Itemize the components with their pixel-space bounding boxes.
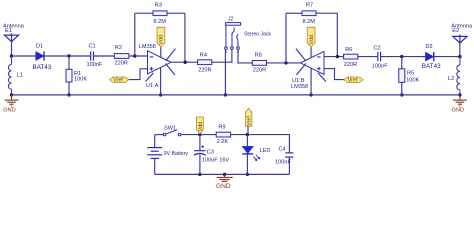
resistor R5 — [399, 69, 405, 83]
svg-text:BAT43: BAT43 — [422, 63, 441, 70]
svg-text:Vdd: Vdd — [198, 122, 204, 131]
diode D1 BAT43 — [36, 51, 44, 60]
resistor R2 — [114, 54, 129, 59]
diode D1 labels — [33, 44, 52, 71]
resistor R4 labels — [198, 53, 211, 74]
svg-text:GND: GND — [452, 108, 464, 114]
capacitor C4 labels — [275, 147, 291, 166]
svg-text:2.2K: 2.2K — [217, 139, 229, 145]
svg-text:E1: E1 — [5, 28, 12, 34]
svg-text:R9: R9 — [218, 125, 225, 131]
stereo jack J2 pin number marks — [225, 51, 239, 53]
svg-text:C2: C2 — [374, 46, 381, 52]
node F junction — [336, 55, 339, 58]
op-amp U1:A V- pin to rail — [160, 67, 162, 95]
svg-text:U1:A: U1:A — [146, 83, 159, 89]
svg-text:Vref: Vref — [247, 116, 253, 126]
capacitor C2 — [378, 52, 381, 61]
wire ground rail — [12, 94, 460, 96]
wire node B1 to C1 — [69, 55, 90, 57]
wire R1 to rail — [68, 82, 70, 95]
svg-text:Vdd: Vdd — [309, 35, 315, 44]
wire R7 top right — [316, 12, 337, 14]
capacitor C3 electrolytic — [194, 135, 206, 175]
svg-text:BAT43: BAT43 — [33, 64, 52, 71]
wire node G down to R5 — [401, 57, 403, 69]
wire R7 right vertical to inverting node — [336, 13, 338, 56]
capacitor C1 — [91, 51, 94, 60]
wire Vref to U1:A non-inverting input — [129, 69, 148, 80]
antenna E2 — [453, 35, 467, 43]
wire R3 top left — [135, 12, 153, 14]
wire R4 to jack tip pin — [212, 50, 232, 63]
svg-text:SW1: SW1 — [164, 126, 176, 132]
ground GND2 — [453, 95, 467, 106]
svg-text:100nF: 100nF — [372, 64, 388, 70]
wire node B1 down to R1 — [68, 56, 70, 69]
power flag Vref (left) — [110, 77, 129, 84]
node GND3 junction — [223, 173, 226, 176]
junction U1:A V- rail — [159, 93, 162, 96]
power flag Vdd (U1:A) — [157, 27, 165, 47]
junction C3 bottom rail — [198, 173, 201, 176]
wire LED cathode to bottom rail — [246, 154, 248, 175]
junction R5 rail — [400, 93, 403, 96]
op-amp U1:A power pin rays — [146, 49, 176, 82]
wire Vref to U1:B non-inverting input — [324, 69, 344, 80]
svg-text:R5: R5 — [407, 70, 414, 76]
antenna E1 label — [3, 23, 25, 34]
wire R7 top left — [286, 12, 302, 14]
wire C2 to node G — [381, 56, 402, 58]
stereo jack J2 ring switch contact — [237, 34, 239, 47]
wire R7 left vertical — [285, 13, 287, 63]
node C junction — [133, 54, 136, 57]
node A2 junction — [458, 55, 461, 58]
node GND1 junction — [10, 93, 13, 96]
stereo jack J2 body bar — [226, 23, 241, 26]
capacitor C2 labels — [372, 46, 388, 70]
svg-text:L2: L2 — [448, 76, 454, 82]
op-amp U1:B V- pin to rail — [310, 68, 312, 95]
resistor R8 — [252, 61, 266, 66]
ground GND1 — [5, 95, 19, 106]
svg-text:D2: D2 — [426, 44, 433, 50]
antenna E1 — [4, 33, 18, 41]
wire C4 to bottom rail — [288, 157, 290, 174]
svg-text:R8: R8 — [255, 53, 262, 59]
diode D2 BAT43 — [426, 52, 434, 61]
power flag Vref (LED node) — [246, 108, 253, 134]
svg-text:J2: J2 — [228, 16, 234, 22]
svg-text:100K: 100K — [74, 76, 87, 82]
node GND2 junction — [458, 93, 461, 96]
wire node A1 to D1 anode — [12, 55, 36, 57]
wire R8 to node E (U1:B output) — [267, 62, 301, 64]
op-amp U1:B V+ pin stub to Vdd flag — [310, 47, 312, 58]
resistor R4 — [198, 60, 212, 65]
op-amp U1:B power pin rays — [296, 49, 326, 82]
wire D1 cathode to node B1 — [44, 55, 69, 57]
op-amp U1:A labels — [139, 44, 159, 89]
svg-text:100nF: 100nF — [87, 62, 103, 68]
resistor R9 — [216, 132, 230, 137]
node E junction — [284, 61, 287, 64]
svg-text:LM358: LM358 — [139, 44, 156, 50]
svg-text:220R: 220R — [115, 60, 128, 66]
wire jack sleeve to rail — [224, 49, 226, 95]
stereo jack J2 sleeve pin — [225, 25, 227, 47]
resistor R9 labels — [217, 125, 229, 146]
resistor R1 — [66, 69, 72, 82]
diode D2 labels — [422, 44, 441, 70]
resistor R3 — [153, 11, 167, 16]
svg-text:8.2M: 8.2M — [154, 19, 167, 25]
svg-text:220R: 220R — [344, 62, 357, 68]
svg-text:220R: 220R — [198, 68, 211, 74]
wire U1:B inverting input to R6 — [324, 56, 344, 58]
svg-text:L1: L1 — [17, 72, 23, 78]
wire antenna E1 to node A1 — [11, 42, 13, 56]
resistor R3 labels — [154, 3, 167, 25]
power flag Vref (right) — [344, 77, 363, 84]
wire R3 right vertical to output node — [184, 13, 186, 62]
ground GND3 — [217, 174, 233, 181]
wire battery bottom lead — [154, 158, 156, 174]
wire D2 cathode to node A2 — [434, 56, 460, 58]
resistor R6 — [344, 54, 358, 59]
svg-text:GND: GND — [3, 108, 15, 114]
power flag Vdd (battery) — [197, 117, 205, 134]
junction R1 rail — [67, 93, 70, 96]
svg-text:8.2M: 8.2M — [303, 19, 316, 25]
svg-text:100uF 16V: 100uF 16V — [202, 157, 230, 163]
svg-text:220R: 220R — [253, 68, 266, 74]
op-amp U1:B — [300, 51, 324, 74]
wire SW1 to node Vdd — [181, 134, 200, 136]
svg-text:LED: LED — [260, 148, 271, 154]
wire jack ring pin to R8 — [238, 49, 252, 63]
svg-text:Vref: Vref — [348, 78, 358, 84]
stereo jack J2 tip switch contact — [232, 28, 234, 47]
resistor R8 labels — [253, 53, 266, 74]
node G junction — [400, 55, 403, 58]
svg-text:R2: R2 — [115, 45, 122, 51]
svg-text:C4: C4 — [279, 147, 286, 153]
svg-text:R3: R3 — [155, 3, 162, 9]
wire battery block bottom rail — [155, 173, 290, 175]
power flag Vdd (U1:B) — [307, 27, 315, 47]
capacitor C3 labels — [202, 150, 230, 164]
svg-text:GND: GND — [216, 183, 231, 190]
wire R6 to C2 — [358, 56, 378, 58]
junction jack sleeve rail — [224, 93, 227, 96]
node A1 junction — [10, 54, 13, 57]
svg-text:100K: 100K — [406, 78, 419, 84]
node Vref junction — [246, 133, 249, 136]
wire R3 top right — [167, 12, 185, 14]
op-amp U1:A — [148, 51, 172, 74]
stereo jack J2 pin circles — [225, 47, 240, 50]
resistor R5 labels — [406, 70, 419, 83]
wire R5 to rail — [401, 82, 403, 95]
svg-text:C1: C1 — [89, 44, 96, 50]
junction LED bottom rail — [246, 173, 249, 176]
svg-text:D1: D1 — [36, 44, 43, 50]
svg-text:C3: C3 — [207, 150, 214, 156]
wire node Vdd to R9 — [200, 134, 216, 136]
node Vdd junction — [198, 133, 201, 136]
wire U1:A output to node D — [171, 61, 198, 63]
wire antenna E2 to node A2 — [459, 43, 461, 57]
battery B1 9V — [147, 148, 162, 159]
wire top rail to C4 — [247, 135, 289, 153]
svg-text:R4: R4 — [200, 53, 207, 59]
wire C1 to R2 — [94, 55, 115, 57]
op-amp U1:A V+ pin stub to Vdd flag — [160, 47, 162, 57]
inductor L2 — [457, 57, 460, 95]
resistor R7 — [302, 11, 316, 16]
wire R3 left vertical — [134, 13, 136, 56]
wire R9 to node Vref — [231, 134, 248, 136]
capacitor C1 labels — [87, 44, 103, 69]
wire node Vref down to LED anode — [246, 135, 248, 147]
svg-text:R6: R6 — [345, 47, 352, 53]
node D junction — [184, 61, 187, 64]
wire node G to D2 anode — [402, 56, 426, 58]
wire battery top lead — [154, 135, 156, 148]
svg-text:R7: R7 — [306, 3, 313, 9]
LED D3 — [242, 146, 260, 160]
resistor R1 labels — [74, 71, 87, 82]
svg-text:Vref: Vref — [113, 78, 123, 84]
inductor L1 — [8, 56, 11, 95]
svg-text:LM358: LM358 — [291, 84, 308, 90]
wire R2 to node C (op-amp inverting input) — [129, 55, 148, 57]
junction U1:B V- rail — [309, 93, 312, 96]
switch SW1 — [163, 130, 181, 136]
resistor R7 labels — [303, 3, 316, 25]
resistor R6 labels — [344, 47, 357, 68]
node B1 junction — [67, 54, 70, 57]
svg-text:E2: E2 — [452, 28, 459, 34]
svg-text:9V Battery: 9V Battery — [164, 151, 189, 157]
svg-text:Vdd: Vdd — [159, 35, 165, 44]
antenna E2 label — [451, 23, 473, 34]
svg-text:Stereo Jack: Stereo Jack — [244, 32, 271, 38]
resistor R2 labels — [115, 45, 128, 66]
wire battery to SW1 — [155, 134, 164, 136]
capacitor C4 — [285, 153, 293, 157]
op-amp U1:B labels — [291, 78, 308, 90]
